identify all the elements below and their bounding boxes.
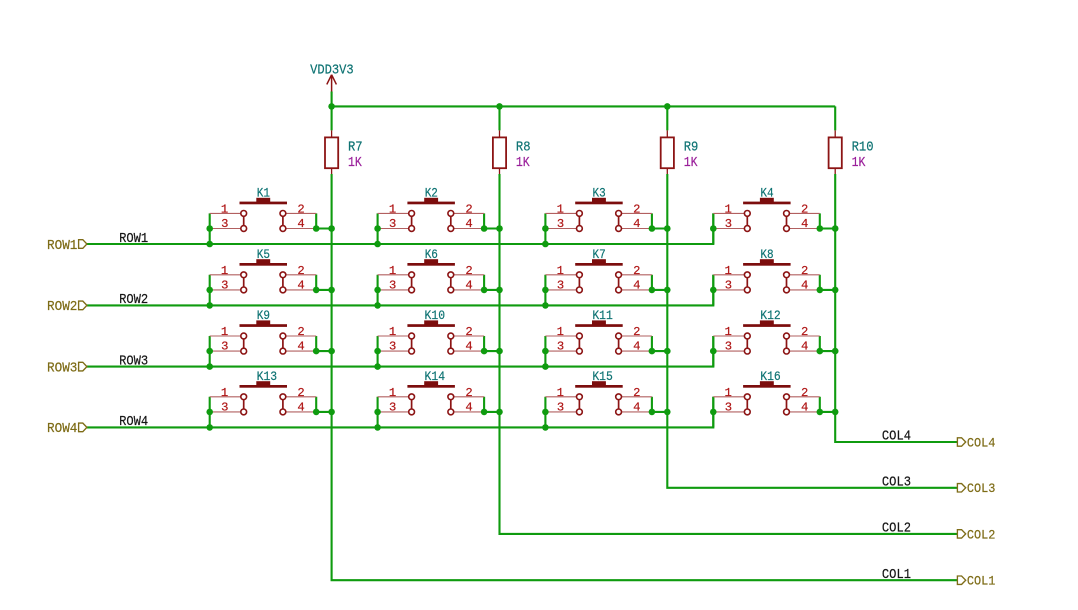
svg-text:K2: K2 bbox=[425, 185, 438, 200]
svg-text:COL3: COL3 bbox=[882, 475, 911, 490]
svg-text:COL4: COL4 bbox=[967, 435, 996, 450]
svg-text:R10: R10 bbox=[852, 141, 874, 156]
svg-text:K16: K16 bbox=[760, 369, 781, 384]
svg-text:VDD3V3: VDD3V3 bbox=[310, 62, 354, 78]
svg-text:K5: K5 bbox=[257, 247, 270, 262]
svg-text:COL1: COL1 bbox=[967, 574, 996, 589]
svg-text:K9: K9 bbox=[257, 308, 270, 323]
svg-text:ROW1: ROW1 bbox=[119, 232, 148, 247]
svg-text:COL2: COL2 bbox=[967, 527, 996, 542]
svg-text:COL4: COL4 bbox=[882, 430, 911, 445]
svg-text:COL1: COL1 bbox=[882, 568, 911, 583]
svg-text:1K: 1K bbox=[684, 156, 699, 171]
svg-text:ROW3: ROW3 bbox=[119, 354, 148, 369]
svg-text:K13: K13 bbox=[257, 369, 278, 384]
svg-text:K8: K8 bbox=[760, 247, 773, 262]
svg-text:ROW2: ROW2 bbox=[47, 299, 77, 315]
svg-text:ROW3: ROW3 bbox=[47, 360, 77, 376]
svg-text:ROW1: ROW1 bbox=[47, 238, 77, 254]
svg-text:R9: R9 bbox=[684, 141, 699, 156]
svg-text:K11: K11 bbox=[592, 308, 613, 323]
svg-text:K12: K12 bbox=[760, 308, 781, 323]
svg-text:K14: K14 bbox=[425, 369, 446, 384]
svg-text:COL3: COL3 bbox=[967, 481, 996, 496]
svg-text:R8: R8 bbox=[516, 141, 531, 156]
svg-text:ROW4: ROW4 bbox=[47, 421, 77, 437]
svg-text:K6: K6 bbox=[425, 247, 438, 262]
svg-text:K15: K15 bbox=[592, 369, 613, 384]
svg-text:1K: 1K bbox=[516, 156, 531, 171]
svg-text:ROW2: ROW2 bbox=[119, 293, 148, 308]
svg-text:1K: 1K bbox=[348, 156, 363, 171]
svg-text:K10: K10 bbox=[425, 308, 446, 323]
svg-text:COL2: COL2 bbox=[882, 522, 911, 537]
svg-text:1K: 1K bbox=[852, 156, 867, 171]
svg-text:ROW4: ROW4 bbox=[119, 415, 148, 430]
svg-text:R7: R7 bbox=[348, 141, 363, 156]
svg-text:K4: K4 bbox=[760, 185, 773, 200]
svg-text:K1: K1 bbox=[257, 185, 270, 200]
svg-text:K3: K3 bbox=[593, 185, 606, 200]
svg-text:K7: K7 bbox=[593, 247, 606, 262]
